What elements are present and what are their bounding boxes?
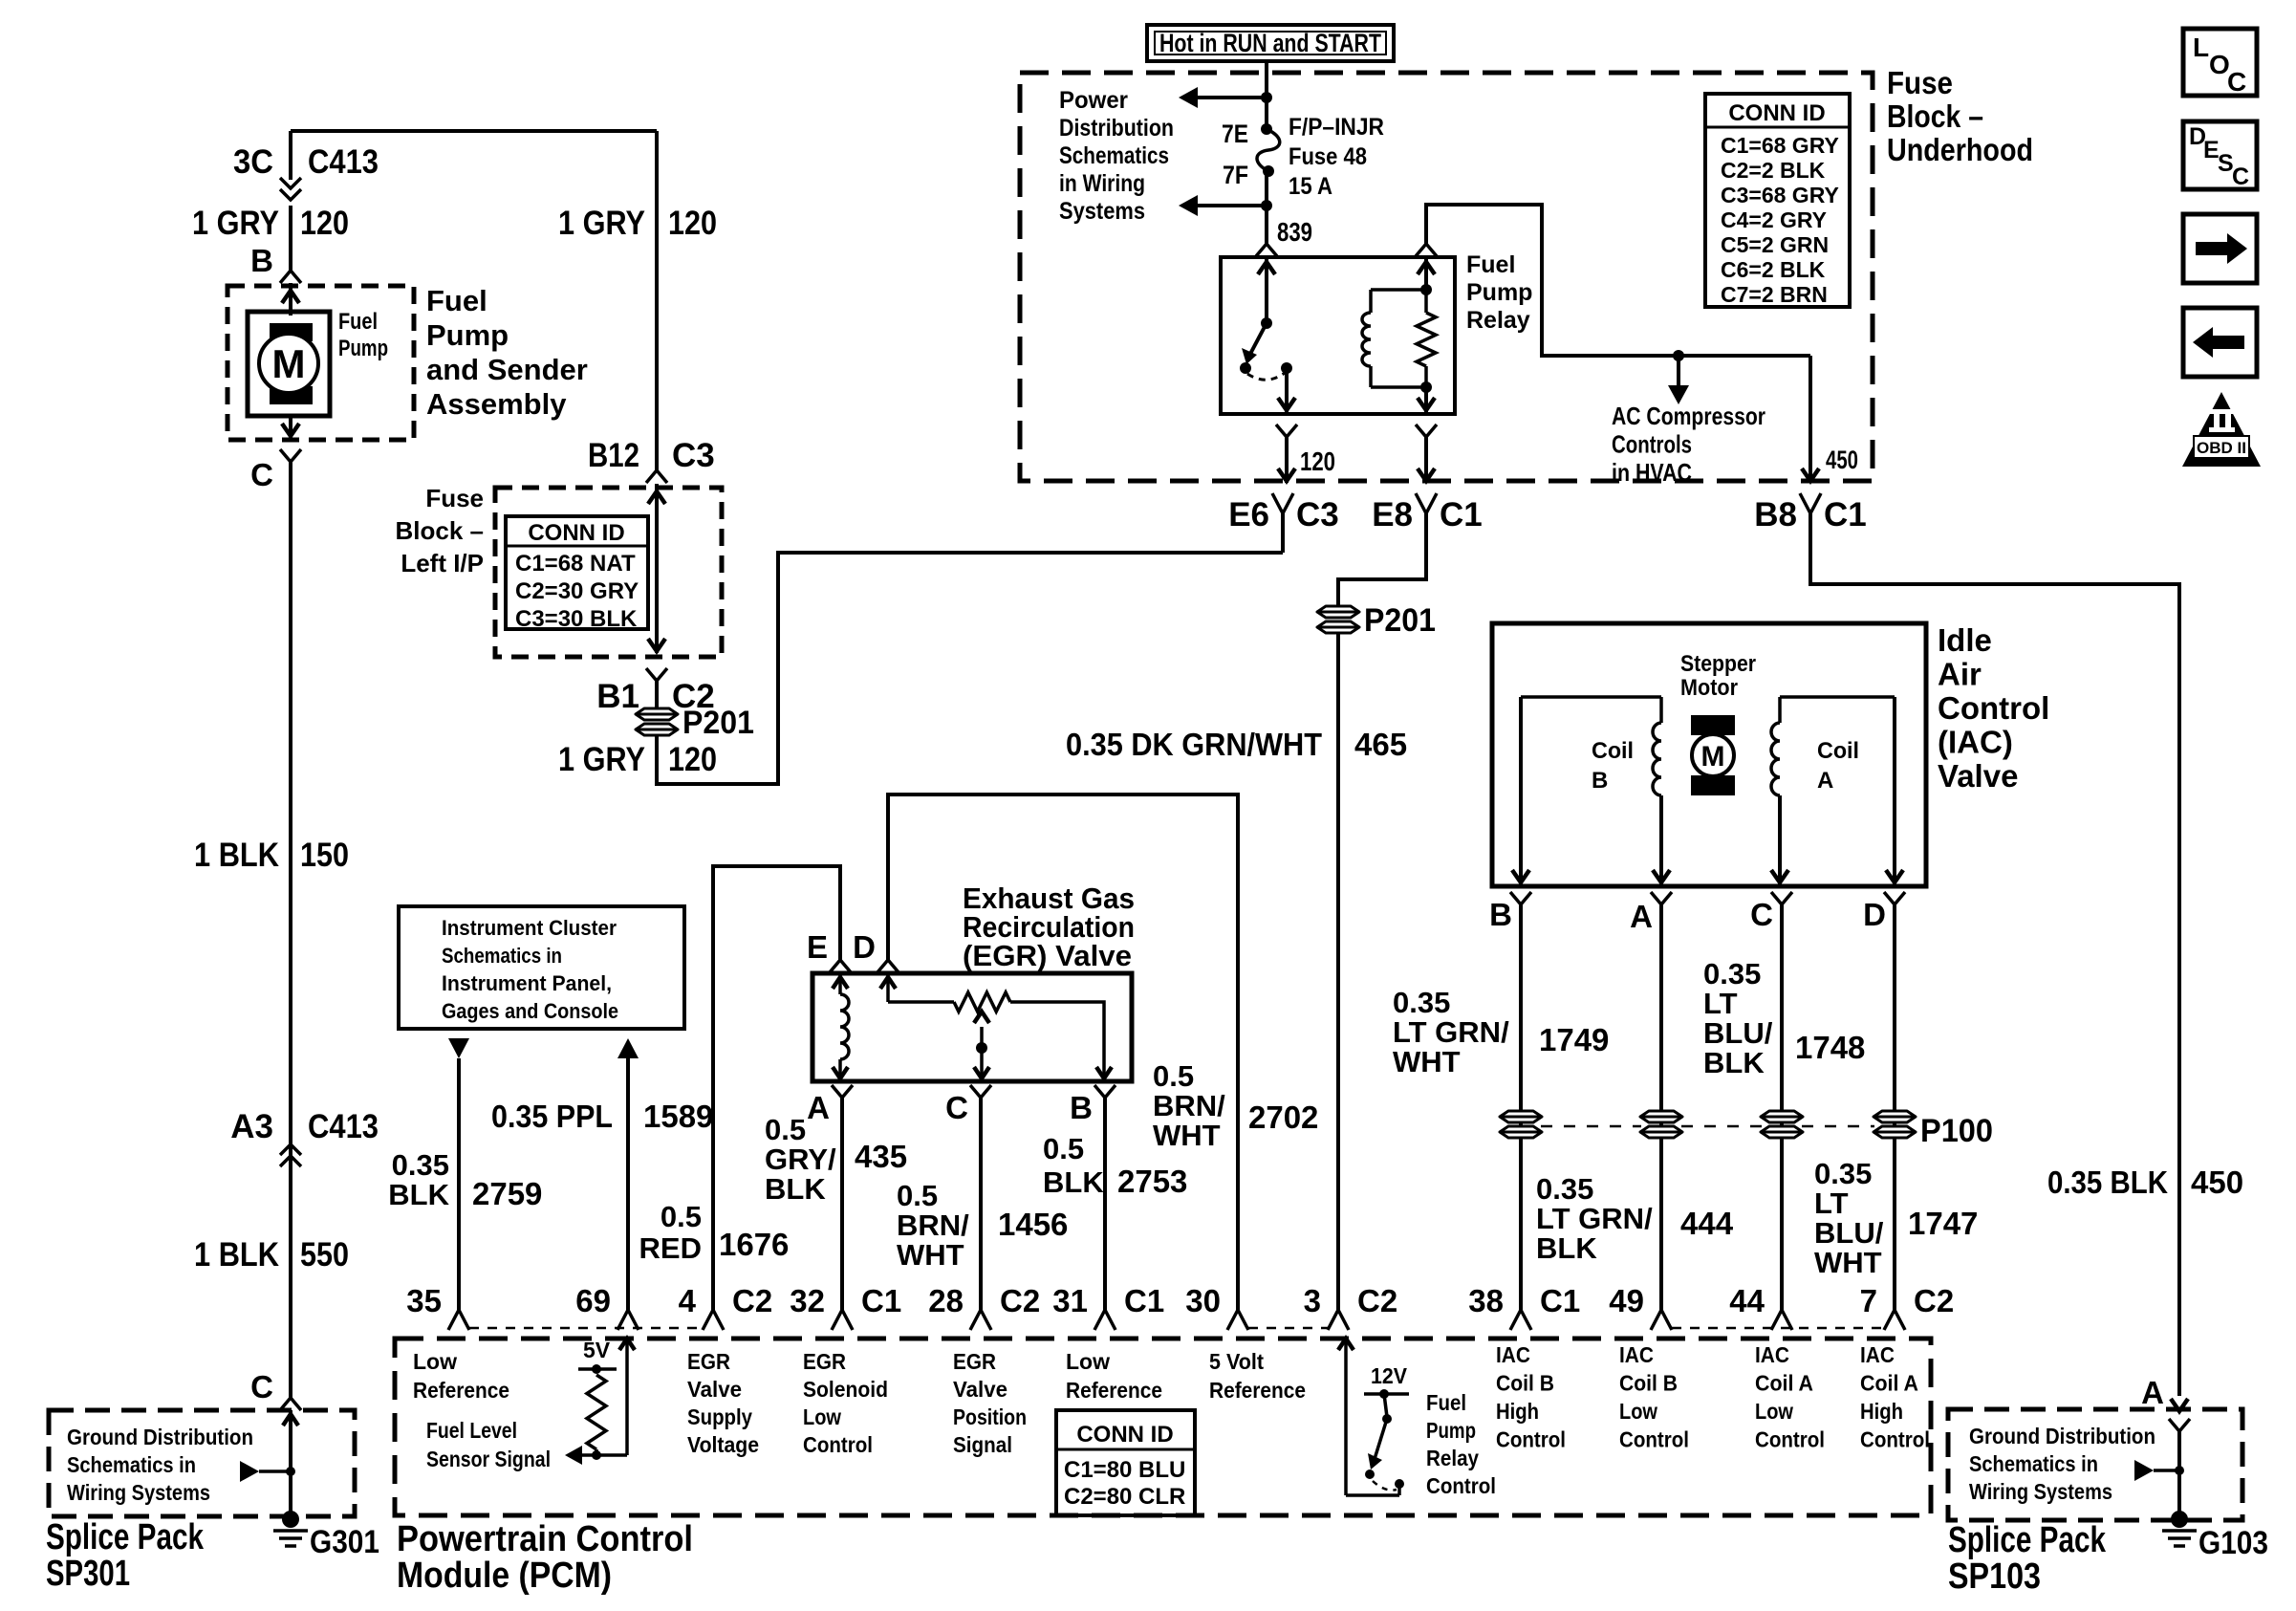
relay switch contact right (output) bbox=[1281, 362, 1292, 374]
stepper motor brush bottom bbox=[1691, 775, 1735, 795]
motor frame fuel pump bbox=[248, 312, 330, 416]
svg-text:1 BLK: 1 BLK bbox=[194, 837, 279, 874]
svg-text:0.5: 0.5 bbox=[661, 1200, 702, 1233]
svg-text:WHT: WHT bbox=[1153, 1119, 1221, 1152]
svg-text:P100: P100 bbox=[1920, 1113, 1993, 1149]
svg-text:32: 32 bbox=[790, 1283, 825, 1318]
pin B chevron bbox=[280, 271, 301, 283]
EGR pot right lead bbox=[1010, 1002, 1104, 1078]
wire from hot box to fuse bbox=[1265, 61, 1268, 129]
svg-text:IAC: IAC bbox=[1619, 1342, 1654, 1367]
svg-text:Sensor Signal: Sensor Signal bbox=[426, 1447, 551, 1471]
wire through left I/P fuse block bbox=[655, 484, 659, 653]
relay coil top node bbox=[1420, 284, 1432, 295]
svg-text:C3: C3 bbox=[672, 437, 715, 474]
svg-text:4: 4 bbox=[679, 1283, 697, 1318]
svg-text:Pump: Pump bbox=[426, 318, 509, 352]
svg-text:Low: Low bbox=[1066, 1349, 1110, 1374]
PCM relay driver contact left bbox=[1365, 1469, 1375, 1479]
svg-text:E8: E8 bbox=[1372, 496, 1413, 533]
svg-text:0.5: 0.5 bbox=[1153, 1059, 1194, 1093]
PCM relay driver dashed arc bbox=[1373, 1481, 1397, 1491]
svg-text:Low: Low bbox=[803, 1404, 841, 1429]
svg-text:WHT: WHT bbox=[1814, 1246, 1882, 1279]
wire 1456 EGR C to pin 28 bbox=[979, 1098, 983, 1310]
relay switch contact left bbox=[1240, 362, 1251, 374]
svg-text:44: 44 bbox=[1729, 1283, 1765, 1318]
relay pin chevron bottom-right bbox=[1416, 425, 1437, 437]
svg-text:Pump: Pump bbox=[1466, 279, 1532, 306]
wire 1748 IAC C to pin 44 bbox=[1780, 904, 1784, 1310]
svg-text:IAC: IAC bbox=[1860, 1342, 1895, 1367]
svg-text:LT: LT bbox=[1814, 1186, 1849, 1220]
relay coil rect top bbox=[1371, 288, 1426, 292]
svg-text:OBD II: OBD II bbox=[2197, 439, 2246, 457]
svg-text:C2: C2 bbox=[1000, 1283, 1040, 1318]
svg-text:G301: G301 bbox=[310, 1524, 379, 1560]
ground G103 node bbox=[2171, 1511, 2188, 1528]
svg-text:EGR: EGR bbox=[803, 1349, 846, 1374]
connector P201 (left) bbox=[636, 708, 678, 735]
svg-text:Systems: Systems bbox=[1059, 198, 1145, 225]
wire to power distribution arrow 2 bbox=[1182, 204, 1267, 207]
svg-text:Control: Control bbox=[803, 1432, 873, 1457]
wire relay coil top to 450 run bbox=[1426, 205, 1810, 356]
fuse F/P-INJR terminal 7F bbox=[1263, 165, 1274, 177]
svg-text:Fuel: Fuel bbox=[426, 284, 487, 317]
icon DESC box bbox=[2183, 121, 2257, 189]
EGR pin B chevron bbox=[1094, 1085, 1116, 1098]
svg-text:1748: 1748 bbox=[1795, 1030, 1865, 1065]
wire 1747 IAC D to pin 7 bbox=[1893, 904, 1896, 1310]
svg-text:Low: Low bbox=[1755, 1399, 1793, 1424]
connector C413 lower double chevron bbox=[280, 1144, 301, 1155]
SP301 branch node bbox=[286, 1467, 295, 1476]
svg-text:BLK: BLK bbox=[1043, 1165, 1104, 1199]
svg-text:550: 550 bbox=[300, 1236, 349, 1274]
svg-text:BRN/: BRN/ bbox=[1153, 1089, 1225, 1122]
svg-text:Coil B: Coil B bbox=[1496, 1371, 1554, 1396]
pin C chevron at SP301 bbox=[280, 1398, 301, 1410]
svg-text:B: B bbox=[1070, 1090, 1093, 1125]
svg-text:A: A bbox=[1630, 899, 1653, 934]
wire 1 GRY 120 (left) bbox=[289, 206, 292, 271]
svg-text:Relay: Relay bbox=[1426, 1446, 1479, 1470]
pin 3 riser inside PCM bbox=[1344, 1342, 1348, 1495]
svg-text:B1: B1 bbox=[596, 678, 639, 715]
svg-text:High: High bbox=[1860, 1399, 1903, 1424]
svg-text:C4=2 GRY: C4=2 GRY bbox=[1721, 207, 1827, 232]
EGR pin E chevron bbox=[830, 960, 851, 972]
svg-text:LT: LT bbox=[1703, 987, 1738, 1020]
12V supply bar bbox=[1364, 1392, 1409, 1396]
svg-text:Schematics in: Schematics in bbox=[442, 944, 562, 968]
svg-text:1749: 1749 bbox=[1539, 1022, 1609, 1057]
svg-text:F/P–INJR: F/P–INJR bbox=[1289, 114, 1384, 141]
5V supply bar bbox=[578, 1367, 617, 1371]
svg-text:120: 120 bbox=[668, 741, 717, 778]
svg-text:Low: Low bbox=[413, 1349, 457, 1374]
svg-text:0.35 DK GRN/WHT: 0.35 DK GRN/WHT bbox=[1066, 727, 1322, 762]
svg-text:LT GRN/: LT GRN/ bbox=[1536, 1202, 1653, 1235]
PCM pin link dashed 49-44-7 bbox=[1672, 1327, 1884, 1330]
relay coil rect bottom bbox=[1371, 385, 1426, 389]
svg-text:Instrument Cluster: Instrument Cluster bbox=[442, 916, 617, 940]
IAC pin C chevron bbox=[1771, 892, 1792, 904]
svg-text:A: A bbox=[2141, 1375, 2164, 1410]
svg-text:Control: Control bbox=[1619, 1427, 1689, 1452]
svg-text:Distribution: Distribution bbox=[1059, 115, 1174, 142]
svg-text:LT GRN/: LT GRN/ bbox=[1393, 1015, 1509, 1049]
svg-text:B: B bbox=[250, 243, 273, 278]
ground G301 symbol bbox=[273, 1529, 308, 1533]
wire B1 to P201 bbox=[655, 681, 659, 708]
arrow power distribution 2 bbox=[1179, 195, 1198, 216]
svg-text:2753: 2753 bbox=[1117, 1164, 1187, 1199]
svg-text:C1: C1 bbox=[1440, 496, 1483, 533]
SP103 branch arrow bbox=[2134, 1460, 2154, 1481]
PCM pin 31 chevron bbox=[1094, 1310, 1116, 1330]
svg-text:839: 839 bbox=[1277, 217, 1312, 247]
svg-text:Stepper: Stepper bbox=[1680, 651, 1756, 677]
pin C chevron bbox=[280, 449, 301, 462]
svg-text:CONN ID: CONN ID bbox=[1076, 1422, 1173, 1448]
svg-text:BLK: BLK bbox=[765, 1172, 826, 1206]
relay coil bottom node bbox=[1420, 381, 1432, 393]
svg-text:Fuse 48: Fuse 48 bbox=[1289, 143, 1367, 170]
relay coil top lead bbox=[1424, 259, 1428, 290]
svg-text:Low: Low bbox=[1619, 1399, 1657, 1424]
wire 1589 cluster to pin 69 bbox=[617, 1038, 639, 1058]
motor brush bottom bbox=[270, 386, 313, 404]
svg-text:Air: Air bbox=[1938, 657, 1982, 692]
svg-text:A: A bbox=[807, 1090, 830, 1125]
svg-text:5 Volt: 5 Volt bbox=[1209, 1349, 1264, 1374]
wire left vertical to C413 bbox=[289, 131, 292, 180]
svg-text:High: High bbox=[1496, 1399, 1539, 1424]
fuel level node bbox=[592, 1450, 601, 1460]
svg-text:450: 450 bbox=[1826, 446, 1858, 474]
wire 450 to B8 bbox=[1809, 356, 1812, 483]
svg-text:120: 120 bbox=[668, 205, 717, 242]
powertrain control module dashed box bbox=[395, 1339, 1931, 1515]
PCM pin 35 chevron bbox=[448, 1310, 469, 1330]
connector B8 chevron bbox=[1800, 493, 1821, 513]
stepper motor brush top bbox=[1691, 715, 1735, 735]
svg-text:Valve: Valve bbox=[1938, 758, 2018, 794]
svg-text:Block –: Block – bbox=[1887, 98, 1983, 134]
svg-text:Pump: Pump bbox=[1426, 1418, 1476, 1443]
PCM pin 69 chevron bbox=[617, 1310, 639, 1330]
icon left arrow box bbox=[2183, 308, 2257, 377]
PCM pin 4 chevron bbox=[703, 1310, 724, 1330]
svg-text:D: D bbox=[853, 929, 876, 965]
svg-text:C3: C3 bbox=[1296, 496, 1339, 533]
svg-text:EGR: EGR bbox=[953, 1349, 996, 1374]
svg-text:BLK: BLK bbox=[1536, 1231, 1597, 1265]
conn id table (PCM) bbox=[1056, 1410, 1195, 1515]
svg-text:0.35: 0.35 bbox=[1536, 1172, 1593, 1206]
svg-text:Power: Power bbox=[1059, 87, 1128, 114]
wire relay to E8 bbox=[1424, 437, 1428, 483]
SP301 branch arrow bbox=[240, 1461, 259, 1482]
svg-text:Schematics: Schematics bbox=[1059, 142, 1169, 169]
svg-text:Fuel Level: Fuel Level bbox=[426, 1418, 517, 1443]
svg-text:C1=80 BLU: C1=80 BLU bbox=[1064, 1457, 1185, 1483]
svg-text:C: C bbox=[250, 1369, 273, 1404]
svg-text:7: 7 bbox=[1860, 1283, 1877, 1318]
svg-text:L: L bbox=[2193, 33, 2209, 62]
chevron into relay (left) bbox=[1256, 244, 1277, 256]
IAC coil B winding bbox=[1659, 697, 1663, 723]
svg-text:CONN ID: CONN ID bbox=[528, 520, 624, 546]
IAC coil A top link bbox=[1780, 695, 1895, 699]
svg-text:Schematics in: Schematics in bbox=[1969, 1451, 2098, 1476]
svg-text:2759: 2759 bbox=[472, 1176, 542, 1211]
svg-text:AC Compressor: AC Compressor bbox=[1612, 402, 1765, 430]
svg-text:Supply: Supply bbox=[687, 1404, 752, 1429]
EGR pot wiper bbox=[974, 1012, 989, 1023]
svg-text:Control: Control bbox=[1426, 1473, 1496, 1498]
svg-text:Fuel: Fuel bbox=[1426, 1390, 1466, 1415]
fuel pump relay box bbox=[1221, 257, 1455, 414]
svg-text:Splice Pack: Splice Pack bbox=[1948, 1520, 2107, 1560]
svg-text:0.35: 0.35 bbox=[1703, 957, 1761, 991]
fuse F/P-INJR terminal 7E bbox=[1261, 123, 1272, 135]
relay switch pivot bbox=[1261, 317, 1272, 329]
svg-text:C2=80 CLR: C2=80 CLR bbox=[1064, 1484, 1185, 1510]
svg-text:Position: Position bbox=[953, 1404, 1027, 1429]
wire E6 down bbox=[1281, 513, 1285, 553]
wire into SP301 bbox=[289, 1410, 292, 1519]
instrument cluster box bbox=[399, 906, 684, 1029]
wire 839 bbox=[1265, 206, 1268, 246]
svg-text:Idle: Idle bbox=[1938, 622, 1992, 658]
svg-text:Schematics in: Schematics in bbox=[67, 1452, 196, 1477]
svg-text:C2: C2 bbox=[1914, 1283, 1954, 1318]
svg-text:49: 49 bbox=[1609, 1283, 1644, 1318]
fuel level pull-up resistor bbox=[587, 1375, 606, 1449]
connector P100 row bbox=[1500, 1111, 1542, 1138]
svg-text:28: 28 bbox=[928, 1283, 964, 1318]
IAC B riser bbox=[1519, 697, 1523, 884]
svg-text:Reference: Reference bbox=[413, 1378, 509, 1403]
svg-text:WHT: WHT bbox=[897, 1238, 964, 1272]
svg-text:(IAC): (IAC) bbox=[1938, 725, 2013, 760]
svg-text:120: 120 bbox=[300, 205, 349, 242]
idle air control valve box bbox=[1492, 623, 1926, 886]
IAC C riser bbox=[1778, 795, 1782, 884]
svg-text:12V: 12V bbox=[1371, 1363, 1408, 1388]
svg-text:Assembly: Assembly bbox=[426, 387, 567, 421]
svg-text:30: 30 bbox=[1185, 1283, 1221, 1318]
EGR pin A chevron bbox=[832, 1085, 853, 1098]
svg-text:Valve: Valve bbox=[687, 1377, 742, 1402]
conn id table (underhood) bbox=[1705, 94, 1850, 307]
svg-text:Fuel: Fuel bbox=[1466, 251, 1515, 278]
svg-text:A: A bbox=[1817, 768, 1833, 794]
wire fuse to junction 2 bbox=[1265, 171, 1268, 206]
EGR pin D chevron bbox=[877, 960, 899, 972]
wire top horizontal 1 GRY 120 feed bbox=[291, 129, 657, 133]
svg-text:BRN/: BRN/ bbox=[897, 1208, 969, 1242]
svg-text:15 A: 15 A bbox=[1289, 173, 1332, 200]
svg-text:1 GRY: 1 GRY bbox=[558, 741, 645, 778]
PCM pin 30 chevron bbox=[1227, 1310, 1248, 1330]
svg-text:D: D bbox=[1863, 897, 1886, 932]
svg-text:Motor: Motor bbox=[1680, 675, 1738, 701]
svg-text:1 GRY: 1 GRY bbox=[558, 205, 645, 242]
EGR pot resistor bbox=[954, 992, 1010, 1012]
relay coil resistor (right leg) bbox=[1424, 290, 1428, 313]
svg-text:SP301: SP301 bbox=[46, 1554, 130, 1594]
wire 2702 EGR D to pin 30 bbox=[888, 795, 1238, 1310]
svg-text:Signal: Signal bbox=[953, 1432, 1012, 1457]
svg-text:M: M bbox=[272, 341, 306, 386]
svg-text:Control: Control bbox=[1496, 1427, 1566, 1452]
svg-text:C1: C1 bbox=[1824, 496, 1867, 533]
svg-text:BLK: BLK bbox=[1703, 1046, 1765, 1079]
svg-text:BLU/: BLU/ bbox=[1703, 1016, 1773, 1050]
svg-text:BLU/: BLU/ bbox=[1814, 1216, 1884, 1250]
stepper motor M circle bbox=[1692, 734, 1734, 776]
IAC pin A chevron bbox=[1651, 892, 1672, 904]
wire 465 to PCM pin 3 bbox=[1336, 634, 1340, 1310]
svg-text:C2=30 GRY: C2=30 GRY bbox=[515, 578, 639, 604]
svg-text:G103: G103 bbox=[2199, 1525, 2268, 1561]
svg-text:B: B bbox=[1592, 768, 1608, 794]
connector E6 chevron bbox=[1272, 493, 1293, 513]
svg-text:Control: Control bbox=[1938, 690, 2049, 726]
svg-text:Wiring Systems: Wiring Systems bbox=[67, 1480, 210, 1505]
svg-text:1 GRY: 1 GRY bbox=[192, 205, 279, 242]
svg-text:465: 465 bbox=[1354, 727, 1407, 762]
svg-text:E6: E6 bbox=[1228, 496, 1269, 533]
wire B12 C3 right vertical 1 GRY 120 bbox=[655, 131, 659, 470]
connector C413 double chevron bbox=[280, 178, 301, 188]
svg-text:1747: 1747 bbox=[1908, 1206, 1978, 1241]
splice pack SP301 dashed box bbox=[49, 1410, 355, 1516]
svg-text:0.5: 0.5 bbox=[897, 1179, 938, 1212]
svg-text:C: C bbox=[2232, 163, 2249, 190]
svg-text:Fuel: Fuel bbox=[338, 309, 378, 335]
svg-text:C1: C1 bbox=[1124, 1283, 1164, 1318]
svg-text:E: E bbox=[807, 929, 828, 965]
svg-text:B8: B8 bbox=[1754, 496, 1797, 533]
icon OBD II triangle bbox=[2182, 392, 2261, 467]
wire 1749 IAC B to pin 38 bbox=[1519, 904, 1523, 1310]
relay switch blade bbox=[1249, 323, 1267, 356]
svg-text:Hot in RUN and START: Hot in RUN and START bbox=[1159, 29, 1381, 57]
wire B8 to right 450 run bbox=[1810, 513, 2179, 1396]
svg-text:IAC: IAC bbox=[1496, 1342, 1530, 1367]
svg-text:Reference: Reference bbox=[1209, 1378, 1306, 1403]
svg-text:150: 150 bbox=[300, 837, 349, 874]
IAC coil A winding bbox=[1778, 697, 1782, 723]
svg-text:Voltage: Voltage bbox=[687, 1432, 759, 1457]
svg-text:Control: Control bbox=[1755, 1427, 1825, 1452]
EGR valve box bbox=[812, 973, 1132, 1081]
IAC pin B chevron bbox=[1510, 892, 1531, 904]
fuse block underhood dashed box bbox=[1020, 73, 1873, 481]
fuse F/P-INJR element bbox=[1257, 129, 1280, 171]
connector E8 chevron bbox=[1416, 493, 1437, 513]
svg-text:Ground Distribution: Ground Distribution bbox=[1969, 1424, 2155, 1448]
svg-text:B12: B12 bbox=[588, 437, 639, 474]
wire into fuel pump bbox=[289, 283, 292, 316]
svg-text:BLK: BLK bbox=[388, 1178, 449, 1211]
wire to power distribution arrow 1 bbox=[1182, 96, 1267, 99]
wire into SP103 bbox=[2171, 1399, 2188, 1411]
EGR solenoid winding bbox=[838, 975, 842, 994]
svg-text:Gages and Console: Gages and Console bbox=[442, 999, 618, 1023]
wire 2753 EGR B to pin 31 bbox=[1103, 1098, 1107, 1310]
fuse block left I/P dashed box bbox=[495, 488, 722, 657]
svg-text:C2: C2 bbox=[1357, 1283, 1397, 1318]
connector B12 C3 chevron bbox=[646, 470, 667, 483]
svg-text:C1=68 GRY: C1=68 GRY bbox=[1721, 133, 1839, 158]
svg-text:Block –: Block – bbox=[396, 516, 485, 545]
pin 69 riser inside PCM bbox=[625, 1342, 629, 1455]
svg-text:Fuse: Fuse bbox=[1887, 65, 1953, 100]
svg-text:Pump: Pump bbox=[338, 336, 388, 361]
wire 1 BLK 150/550 left vertical bbox=[289, 462, 292, 1398]
svg-text:SP103: SP103 bbox=[1948, 1557, 2041, 1597]
node power distribution junction 2 bbox=[1261, 200, 1272, 211]
fuel pump and sender assembly dashed box bbox=[227, 286, 414, 440]
wire E8 to 465 riser bbox=[1338, 513, 1426, 605]
svg-text:P201: P201 bbox=[1364, 602, 1436, 639]
wire P201 down bbox=[655, 736, 659, 786]
relay pin chevron bottom-left bbox=[1276, 425, 1297, 437]
svg-text:in Wiring: in Wiring bbox=[1059, 170, 1145, 197]
svg-text:0.5: 0.5 bbox=[1043, 1132, 1084, 1165]
chevron into relay (right) bbox=[1416, 244, 1437, 256]
svg-text:Powertrain Control: Powertrain Control bbox=[397, 1519, 693, 1559]
wire out of fuel pump bbox=[289, 416, 292, 438]
svg-text:C2: C2 bbox=[732, 1283, 772, 1318]
PCM pin 49 chevron bbox=[1651, 1310, 1672, 1330]
svg-text:A3: A3 bbox=[230, 1108, 273, 1145]
svg-text:C6=2 BLK: C6=2 BLK bbox=[1721, 257, 1826, 282]
svg-text:Relay: Relay bbox=[1466, 307, 1530, 334]
svg-text:0.35: 0.35 bbox=[1814, 1157, 1872, 1190]
PCM pin 28 chevron bbox=[970, 1310, 991, 1330]
svg-text:WHT: WHT bbox=[1393, 1045, 1461, 1078]
svg-text:Ground Distribution: Ground Distribution bbox=[67, 1425, 253, 1449]
PCM pin 44 chevron bbox=[1771, 1310, 1792, 1330]
svg-text:31: 31 bbox=[1052, 1283, 1088, 1318]
IAC D riser bbox=[1893, 697, 1896, 884]
svg-text:Valve: Valve bbox=[953, 1377, 1007, 1402]
svg-text:435: 435 bbox=[855, 1139, 907, 1174]
svg-text:69: 69 bbox=[575, 1283, 611, 1318]
PCM relay driver contact right bbox=[1395, 1479, 1404, 1489]
PCM pin 7 chevron bbox=[1884, 1310, 1905, 1330]
PCM relay driver output bbox=[1397, 1484, 1401, 1495]
svg-text:Instrument Panel,: Instrument Panel, bbox=[442, 971, 612, 995]
svg-text:Reference: Reference bbox=[1066, 1378, 1162, 1403]
IAC coil B top link bbox=[1521, 695, 1661, 699]
svg-text:C5=2 GRN: C5=2 GRN bbox=[1721, 232, 1829, 257]
arrow power distribution 1 bbox=[1179, 87, 1198, 108]
svg-text:1589: 1589 bbox=[643, 1099, 713, 1134]
svg-text:Coil A: Coil A bbox=[1755, 1371, 1813, 1396]
motor M circle bbox=[259, 334, 318, 393]
svg-text:Wiring Systems: Wiring Systems bbox=[1969, 1479, 2112, 1504]
svg-text:1456: 1456 bbox=[998, 1207, 1068, 1242]
svg-text:3: 3 bbox=[1304, 1283, 1321, 1318]
